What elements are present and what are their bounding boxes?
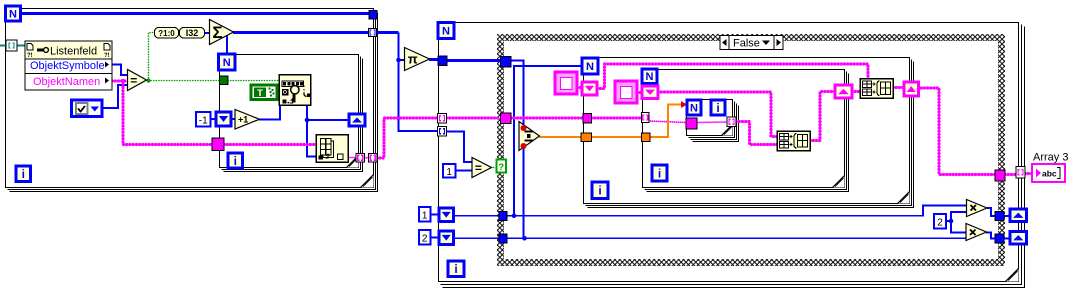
svg-text:I32: I32	[186, 28, 199, 38]
svg-text:?: ?	[498, 162, 504, 173]
wire: sum branch down to inner loop N terminal	[226, 33, 228, 55]
conversion node I32	[180, 28, 205, 39]
wire: case tunnels to right loop shift registers	[1004, 215, 1010, 217]
svg-text:1: 1	[422, 211, 428, 222]
shift register right terminal loop B (magenta up arrow)	[835, 85, 852, 98]
checkbox boolean constant	[72, 100, 103, 117]
wire: magenta array inside inner loop to array-to-cluster node	[224, 143, 317, 146]
svg-text:abc: abc	[1042, 169, 1057, 179]
svg-text:N: N	[586, 61, 594, 73]
wire: loop A shift register out, long chain to build-array node 2	[597, 64, 868, 89]
tunnel: string out of loop C	[727, 117, 736, 127]
svg-text:=: =	[475, 161, 482, 175]
terminal N (right outer loop)	[438, 23, 454, 39]
boolean TRUE constant with question	[251, 85, 277, 100]
op node: multiply 2	[966, 224, 987, 241]
svg-text:?1:0: ?1:0	[158, 29, 175, 38]
node: array to cluster / index icon	[316, 135, 348, 163]
svg-text:Σ: Σ	[212, 23, 222, 42]
wire: case output to Array 3 indicator	[1005, 173, 1017, 176]
tunnel: orange into loop B	[642, 133, 651, 142]
for loop: case inner C (innermost) frame	[687, 100, 739, 142]
tunnel: string array into loop A	[583, 114, 592, 124]
pink array constant 1 (SR init loop A)	[555, 72, 577, 94]
svg-text:=: =	[130, 73, 137, 87]
op node: quotient with coercion dots	[519, 122, 540, 151]
svg-text:False: False	[733, 38, 760, 50]
wire: 1 constant to equals comparison	[455, 170, 472, 172]
svg-text:i: i	[22, 167, 25, 181]
shift register left terminal row2 (right loop)	[439, 231, 454, 245]
wire: -1 constant to index node to +1	[211, 118, 217, 120]
indicator: Array 3 string array	[1032, 164, 1065, 182]
svg-text:Listenfeld: Listenfeld	[50, 46, 97, 58]
terminal i (case loop A)	[592, 182, 608, 199]
svg-text:i: i	[716, 101, 719, 115]
op node: +1 increment	[235, 110, 260, 130]
svg-text:+1: +1	[238, 114, 248, 124]
wire: loop A SR output to case tunnel	[918, 88, 996, 175]
svg-text:N: N	[9, 8, 17, 20]
shift register left terminal (inner loop, blue down arrow)	[216, 112, 231, 126]
constant: pi	[405, 48, 430, 71]
terminal i (case loop B)	[652, 165, 667, 181]
wire: ObjektNamen string array (magenta chain)	[112, 79, 127, 82]
wire: symbol node output down, to shift register and array node	[307, 105, 317, 157]
op node: equals comparison	[128, 70, 147, 91]
op node: sum (sigma)	[210, 20, 234, 45]
wire: shift register 1 row across right loop	[431, 214, 440, 216]
wire: multiply outputs to case tunnels	[987, 208, 996, 216]
constant 2 (row2 shift register init)	[419, 230, 431, 245]
wire: teal refnum into property node	[0, 45, 7, 47]
wire: +1 output up into listbox symbol node	[259, 106, 280, 120]
tunnel: string array into inner loop (magenta)	[212, 138, 224, 151]
tunnel: multiply 2 result through case border	[995, 234, 1004, 243]
junction dot symbol node output	[305, 118, 310, 123]
terminal i (left inner loop)	[228, 153, 243, 168]
svg-text:N: N	[690, 102, 698, 114]
constant 2 (multiply factor)	[934, 214, 946, 229]
wire: equals output boolean (green dotted) to ?1:0 and inner loop tunnel	[149, 33, 155, 81]
tunnel: pi value through case border	[501, 57, 512, 68]
svg-text:i: i	[234, 154, 237, 168]
svg-text:?!: ?!	[27, 53, 33, 59]
svg-text:-1: -1	[199, 116, 208, 127]
terminal i (right outer loop)	[448, 261, 464, 277]
for loop: left outer frame	[6, 9, 378, 192]
conversion node ?1:0	[155, 28, 179, 39]
svg-text:π: π	[408, 52, 418, 67]
svg-text:i: i	[598, 184, 601, 198]
node: build array 2	[860, 79, 893, 99]
tunnel: count into right loop	[438, 127, 447, 137]
wire: string inside loop C (wavy)	[697, 121, 728, 124]
wire: sum output through tunnel, down to pi node and case tunnels	[233, 31, 399, 34]
tunnel: result out of right loop	[1016, 167, 1025, 179]
wire: loop C output to build-array node 1	[736, 122, 777, 145]
tunnel: row2 through case border	[499, 234, 507, 243]
wire: checkbox constant to equals	[103, 85, 128, 108]
tunnel: string out of loop B border (indexing)	[642, 113, 650, 123]
wire: green boolean inside inner loop to symbol node	[228, 80, 280, 82]
wire: pi constant output into right loop and down to quotient node	[429, 58, 439, 61]
svg-text:Array 3: Array 3	[1033, 152, 1068, 164]
tunnel: string into loop C	[686, 118, 697, 129]
constant -1	[196, 112, 211, 127]
junction dot on ObjektNamen wire	[121, 79, 125, 83]
tunnel: inner loop string output	[356, 154, 365, 162]
wire: loop B SR terminal to build-array node 1	[658, 92, 777, 137]
wire: string result out of array node through loop tunnels (wavy)	[348, 157, 357, 159]
shift register right terminal (inner loop, blue up arrow)	[349, 114, 365, 126]
svg-text:i: i	[454, 262, 457, 276]
property node Listenfeld	[25, 41, 112, 90]
wire: row 1 branch up to case-inner loop N terminal	[514, 66, 583, 216]
terminal N (loop C)	[687, 100, 701, 115]
svg-text:i: i	[658, 166, 661, 180]
node: build array 1	[777, 131, 810, 151]
shift register left terminal loop A (magenta down arrow)	[582, 82, 597, 95]
constant 1 (comparison)	[443, 164, 456, 178]
terminal N (case loop B)	[642, 69, 657, 84]
tunnel: pi into right loop	[438, 56, 447, 66]
wire: magenta string array across case into inner loops	[447, 116, 501, 119]
wire: I32 to sum node	[204, 32, 210, 34]
terminal i (left outer loop)	[16, 166, 31, 182]
for loop: right outer frame	[439, 23, 1025, 288]
wire: orange quotient to loop tunnels and loop C count	[539, 136, 582, 138]
svg-text:1: 1	[446, 167, 452, 178]
wire: build-array 2 output to loop A right SR terminal	[893, 86, 905, 89]
for loop: case inner B frame	[643, 70, 849, 192]
tunnel: outer loop string output	[369, 154, 378, 163]
op node: multiply 1	[967, 200, 988, 217]
array element tunnel on left edge	[6, 40, 17, 51]
wire: string array out of left loops to right loop (magenta chain)	[377, 118, 439, 158]
svg-text:N: N	[223, 57, 231, 69]
red coercion arrow into loop C N terminal	[681, 101, 687, 108]
shift register left terminal loop B (magenta down arrow)	[642, 86, 658, 99]
tunnel: string array into right loop	[438, 114, 447, 124]
tunnel: result through case border right	[995, 170, 1005, 181]
wire: shift register init 1 (pink constant to SR terminal loop A)	[577, 86, 583, 89]
wire: equals result to case selector (green)	[491, 167, 497, 169]
tunnel: sum result out of left loop	[369, 29, 377, 37]
terminal N (left outer loop)	[6, 6, 21, 21]
shift register right terminal row1 (right loop)	[1010, 209, 1027, 222]
junction dot row1	[512, 214, 517, 219]
tunnel: string array through case border	[501, 113, 512, 124]
svg-text:?!: ?!	[104, 53, 110, 59]
for loop: case inner A frame	[584, 58, 914, 208]
tunnel: boolean into inner loop (green)	[220, 76, 229, 85]
shift register right terminal row2 (right loop)	[1010, 232, 1027, 245]
wire: 2 constant to multiply nodes	[946, 212, 967, 221]
terminal N (left inner loop)	[219, 54, 236, 70]
tunnel: row1 through case border	[499, 212, 507, 221]
wire: shift register 2 row across right loop	[431, 237, 440, 239]
wire: case tunnel to equals comparison	[447, 132, 473, 163]
terminal i (loop C)	[711, 100, 725, 115]
pink array constant 2 (SR init loop B)	[615, 81, 637, 103]
wire: loop B SR to build-array 2	[852, 90, 861, 93]
wire: boolean T constant to symbol node (green)	[277, 92, 280, 94]
shift register left terminal row1 (right loop)	[439, 208, 454, 222]
tunnel: orange into loop A	[581, 133, 592, 142]
svg-text:T: T	[257, 88, 263, 99]
tunnel: N count out of left loop (solid blue)	[369, 11, 377, 20]
svg-text:ObjektNamen: ObjektNamen	[33, 76, 100, 88]
junction dot pi branch	[396, 58, 401, 63]
tunnel: multiply 1 result through case border	[995, 212, 1004, 221]
wire: pink constant 2 to SR terminal loop B	[637, 91, 643, 94]
node: set listbox item symbols icon	[279, 75, 311, 106]
svg-text:N: N	[646, 71, 654, 83]
junction dot row2	[522, 236, 527, 241]
wire: indexed string inside loop B to loop C (wavy)	[649, 121, 687, 123]
case structure border (hatched)	[497, 34, 1005, 266]
wire: ObjektSymbole to equals	[112, 65, 128, 76]
case selector label False	[720, 36, 783, 50]
shift register right terminal loop A (magenta up arrow)	[904, 82, 919, 96]
svg-text:2: 2	[422, 234, 428, 245]
for loop: left inner frame	[220, 55, 363, 172]
constant 1 (row1 shift register init)	[419, 207, 431, 222]
wire: N count wire along top of left loop	[20, 12, 370, 15]
op node: equals (case selector feed)	[472, 158, 492, 178]
svg-text:ObjektSymbole: ObjektSymbole	[30, 60, 105, 72]
terminal N (case loop A)	[582, 58, 598, 74]
wire: build-array 1 output to loop B right SR terminal	[810, 92, 836, 141]
case selector terminal ?	[497, 160, 507, 173]
svg-text:N: N	[442, 25, 450, 37]
svg-text:2: 2	[937, 218, 943, 229]
